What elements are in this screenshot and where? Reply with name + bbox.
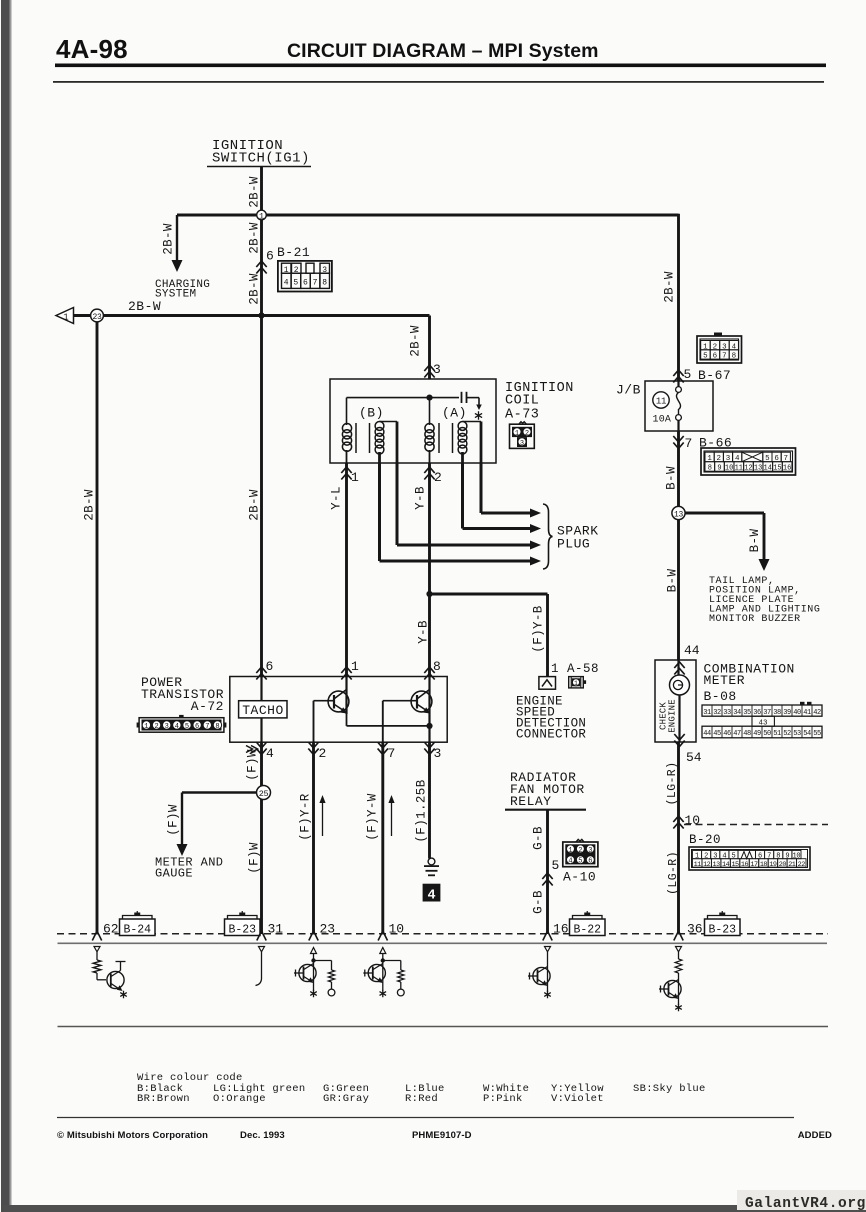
- svg-text:35: 35: [743, 709, 751, 717]
- gray section line lower: [58, 1026, 829, 1028]
- svg-text:33: 33: [723, 709, 731, 717]
- connector B-08 row 1: [702, 702, 822, 717]
- svg-text:2B-W: 2B-W: [663, 271, 677, 303]
- PT wire pin 7 riser: [382, 701, 384, 743]
- svg-text:8: 8: [732, 353, 737, 361]
- svg-text:5: 5: [684, 367, 692, 382]
- svg-text:B-W: B-W: [748, 529, 762, 553]
- svg-text:(F)Y-W: (F)Y-W: [366, 793, 380, 841]
- svg-text:9: 9: [717, 465, 721, 473]
- svg-text:(F)W: (F)W: [248, 842, 262, 874]
- charging system text: [155, 279, 210, 301]
- svg-text:16: 16: [783, 465, 791, 473]
- svg-text:23: 23: [320, 922, 336, 937]
- svg-text:METER: METER: [704, 673, 746, 688]
- svg-text:Y-L: Y-L: [330, 486, 344, 510]
- connector B-66 pin 7 chevron: [673, 436, 692, 451]
- svg-text:21: 21: [788, 861, 796, 869]
- footer rule: [57, 1117, 794, 1119]
- svg-text:13: 13: [713, 861, 721, 869]
- ground symbol 31 (open end): [256, 947, 265, 986]
- svg-text:B-21: B-21: [277, 245, 310, 260]
- connector icon B-22: [570, 911, 606, 936]
- label (F)Y-R: [299, 793, 313, 841]
- wire end fork 16: [543, 931, 552, 941]
- coil B primary lead: [346, 398, 348, 425]
- svg-text:2B-W: 2B-W: [409, 325, 423, 357]
- label (LG-R) below B-20: [667, 851, 680, 895]
- svg-text:12: 12: [703, 861, 711, 869]
- header title CIRCUIT DIAGRAM - MPI System: [287, 40, 599, 62]
- svg-text:Dec. 1993: Dec. 1993: [240, 1130, 285, 1141]
- svg-text:B-08: B-08: [704, 689, 737, 704]
- label (F)Y-B: [532, 605, 546, 653]
- connector icon A-73: [510, 422, 535, 449]
- transistor Q1: [314, 690, 349, 714]
- PT pin 4 side arrow: [246, 746, 258, 753]
- power transistor text: [141, 675, 224, 714]
- svg-text:2B-W: 2B-W: [248, 273, 262, 305]
- svg-text:4: 4: [175, 723, 179, 731]
- PT wire pin 2 riser: [313, 701, 315, 743]
- svg-text:51: 51: [773, 730, 781, 738]
- svg-text:10: 10: [725, 465, 733, 473]
- check engine lamp: [670, 660, 690, 742]
- PT wire pin 8 drop: [428, 677, 430, 743]
- wire Y-B branch drop: [546, 594, 549, 677]
- svg-text:53: 53: [793, 730, 801, 738]
- wire J/B to B-66: [677, 431, 680, 510]
- svg-text:Y-B: Y-B: [417, 620, 431, 644]
- header thin rule: [53, 81, 824, 83]
- wire top bus: [177, 214, 679, 217]
- svg-text:11: 11: [656, 397, 666, 407]
- svg-text:10: 10: [685, 813, 701, 828]
- svg-text:5: 5: [731, 853, 735, 861]
- spark plug brace: [543, 504, 553, 569]
- svg-text:1: 1: [259, 211, 264, 221]
- wire coil feed drop: [428, 316, 431, 380]
- connector B-20 box: [689, 847, 810, 870]
- svg-text:SWITCH(IG1): SWITCH(IG1): [212, 151, 310, 167]
- svg-text:1: 1: [351, 470, 359, 485]
- watermark GalantVR4.org: [745, 1196, 866, 1212]
- wire end fork B-24: [92, 931, 101, 941]
- svg-text:44: 44: [684, 643, 700, 658]
- svg-text:B-W: B-W: [665, 466, 679, 490]
- svg-text:2B-W: 2B-W: [248, 222, 262, 254]
- svg-text:11: 11: [735, 465, 743, 473]
- PT wire Q1 emitter to junction: [347, 713, 430, 726]
- label (F)Y-W: [366, 793, 380, 841]
- node 1 circle: [257, 210, 267, 221]
- spark plug text: [557, 524, 599, 552]
- wire ignition switch drop: [260, 167, 263, 216]
- footer copyright: [57, 1130, 285, 1141]
- fuse symbol: [676, 381, 682, 431]
- svg-text:1 A-58: 1 A-58: [551, 662, 599, 676]
- svg-text:37: 37: [763, 709, 771, 717]
- wire end fork 31: [257, 931, 266, 941]
- fuse 10A label: [653, 415, 672, 426]
- label 62: [103, 922, 119, 937]
- svg-text:GAUGE: GAUGE: [155, 867, 193, 881]
- svg-text:41: 41: [803, 709, 811, 717]
- svg-text:MONITOR BUZZER: MONITOR BUZZER: [709, 614, 801, 625]
- connector B-66 label: [699, 436, 732, 451]
- ground symbol 62 (resistor + transistor): [93, 947, 127, 999]
- svg-text:40: 40: [793, 709, 801, 717]
- label B-W above meter: [666, 569, 680, 593]
- svg-text:39: 39: [783, 709, 791, 717]
- svg-text:5: 5: [293, 278, 298, 287]
- svg-text:(F)1.25B: (F)1.25B: [415, 779, 429, 842]
- coil B secondary top lead: [380, 422, 398, 464]
- svg-text:5: 5: [552, 858, 560, 873]
- wire center to power transistor: [260, 316, 263, 677]
- junction dot feed/center: [258, 312, 264, 318]
- label Y-B: [414, 486, 428, 510]
- svg-text:16: 16: [741, 861, 749, 869]
- svg-text:B-W: B-W: [666, 569, 680, 593]
- svg-text:B-24: B-24: [123, 923, 151, 936]
- svg-text:1: 1: [351, 659, 359, 674]
- ignition coil text: [505, 381, 574, 423]
- svg-text:3: 3: [713, 853, 717, 861]
- svg-text:4: 4: [266, 746, 274, 761]
- circle node 13: [672, 506, 685, 519]
- svg-text:CIRCUIT DIAGRAM – MPI System: CIRCUIT DIAGRAM – MPI System: [287, 40, 599, 62]
- svg-text:(B): (B): [359, 406, 384, 421]
- wire Y-B branch horizontal: [430, 593, 548, 596]
- label J/B: [616, 383, 641, 398]
- wire end fork 36: [674, 931, 683, 941]
- svg-text:8: 8: [322, 278, 327, 287]
- wire meter to B-20: [677, 742, 680, 934]
- svg-text:46: 46: [723, 730, 731, 738]
- left scan gutter bar: [1, 0, 12, 1212]
- connector icon A-58: [569, 677, 586, 688]
- svg-text:54: 54: [803, 730, 811, 738]
- PT junction dot: [426, 723, 432, 729]
- radiator relay underline: [505, 809, 586, 811]
- label (LG-R) above B-20: [666, 762, 679, 806]
- connector B-08 cell 43: [752, 716, 774, 727]
- connector B-67 pin 5 chevron: [673, 367, 691, 383]
- svg-text:8: 8: [215, 723, 219, 731]
- svg-text:A-10: A-10: [563, 870, 596, 885]
- meter and gauge text: [155, 856, 223, 881]
- svg-text:42: 42: [813, 709, 821, 717]
- wire relay to A-10: [546, 810, 549, 934]
- svg-text:BR:Brown: BR:Brown: [137, 1093, 190, 1105]
- header page number 4A-98: [56, 34, 128, 64]
- coil A secondary bottom lead: [461, 452, 464, 463]
- ground symbol 36 (resistor + transistor): [659, 947, 682, 1012]
- wire pin 3 to ground: [428, 742, 431, 858]
- svg-text:(F)Y-B: (F)Y-B: [532, 605, 546, 653]
- svg-text:2: 2: [434, 470, 442, 485]
- label 2B-W above B-21: [248, 222, 262, 254]
- svg-text:2: 2: [578, 847, 582, 855]
- meter bottom chevron: [674, 734, 684, 747]
- ground symbol 16 (transistor): [528, 947, 551, 999]
- coil internal junction dot: [426, 395, 432, 401]
- label 2B-W switch drop: [248, 176, 262, 208]
- wire pin4 to circle 25: [260, 742, 263, 786]
- label (F)W above 25: [246, 749, 260, 781]
- label (B): [359, 406, 384, 421]
- label (A): [442, 406, 467, 421]
- svg-text:COIL: COIL: [505, 394, 539, 409]
- wire Y-L coil to PT: [345, 463, 348, 677]
- transistor Q2: [383, 690, 432, 714]
- connector icon B-23 right: [705, 911, 741, 936]
- spark plug lead 3: [397, 463, 541, 550]
- svg-text:PLUG: PLUG: [557, 537, 590, 552]
- svg-text:4: 4: [722, 853, 726, 861]
- label 2B-W below B-21: [248, 273, 262, 305]
- connector B-67 box: [697, 333, 742, 364]
- capacitor C: [462, 392, 482, 410]
- connector icon B-23 left: [225, 911, 261, 936]
- coil B secondary bottom lead: [378, 452, 381, 463]
- connector A-10 icon: [563, 839, 598, 866]
- meter top chevron: [674, 662, 684, 675]
- svg-text:3: 3: [588, 847, 592, 855]
- ground symbol 23 (transistor + resistor to sensor): [294, 948, 335, 998]
- svg-text:G-B: G-B: [532, 890, 546, 914]
- svg-text:B-23: B-23: [228, 923, 256, 936]
- svg-text:O:Orange: O:Orange: [213, 1093, 266, 1105]
- svg-text:5: 5: [703, 353, 708, 361]
- label 31: [268, 922, 284, 937]
- wire B-66 to combination meter: [677, 507, 680, 661]
- svg-text:13: 13: [674, 511, 684, 520]
- svg-text:2B-W: 2B-W: [248, 176, 262, 208]
- svg-text:36: 36: [753, 709, 761, 717]
- label 36: [687, 922, 703, 937]
- svg-text:2B-W: 2B-W: [162, 223, 176, 255]
- connector B-21 box: [278, 261, 332, 292]
- wire center drop node1 to junction: [260, 215, 263, 316]
- svg-text:49: 49: [753, 730, 761, 738]
- svg-text:36: 36: [687, 922, 703, 937]
- label Y-B lower: [417, 620, 431, 644]
- svg-text:B-20: B-20: [689, 833, 721, 847]
- PT pin 7 chevron: [378, 742, 396, 761]
- svg-text:7: 7: [685, 436, 693, 451]
- svg-text:8: 8: [708, 465, 712, 473]
- svg-text:7: 7: [313, 278, 318, 287]
- svg-text:3: 3: [165, 723, 169, 731]
- spark plug lead 1: [481, 463, 541, 518]
- wire right bus drop: [677, 214, 680, 381]
- coil A secondary top lead: [463, 422, 482, 464]
- svg-text:44: 44: [703, 730, 711, 738]
- svg-text:V:Violet: V:Violet: [551, 1093, 604, 1105]
- coil A primary bottom lead: [429, 450, 431, 463]
- tail lamp branch wire: [685, 513, 770, 571]
- svg-text:10: 10: [389, 922, 405, 937]
- svg-text:15: 15: [773, 465, 781, 473]
- svg-text:P:Pink: P:Pink: [483, 1093, 523, 1105]
- svg-text:5: 5: [578, 858, 582, 866]
- wire end fork 10: [378, 931, 387, 941]
- svg-text:48: 48: [743, 730, 751, 738]
- coil B secondary winding: [370, 422, 384, 454]
- PT pin 3 chevron: [424, 742, 441, 761]
- svg-text:G-B: G-B: [532, 826, 546, 850]
- footer document number: [412, 1130, 472, 1141]
- svg-text:2B-W: 2B-W: [128, 299, 161, 314]
- combination meter text: [704, 662, 795, 705]
- svg-text:11: 11: [694, 861, 702, 869]
- label 10: [389, 922, 405, 937]
- label Y-L: [330, 486, 344, 510]
- svg-text:6: 6: [266, 249, 274, 264]
- svg-text:45: 45: [713, 730, 721, 738]
- svg-text:34: 34: [733, 709, 741, 717]
- svg-text:14: 14: [722, 861, 730, 869]
- svg-text:J/B: J/B: [616, 383, 641, 398]
- label B-W below B-66: [665, 466, 679, 490]
- label G-B below A-10: [532, 890, 546, 914]
- tacho box: [239, 701, 287, 718]
- label 2B-W charging: [162, 223, 176, 255]
- svg-text:R:Red: R:Red: [405, 1093, 438, 1105]
- svg-text:2: 2: [154, 723, 158, 731]
- ground symbol pin 3: [424, 858, 439, 875]
- label 1 A-58: [551, 662, 599, 676]
- svg-text:52: 52: [783, 730, 791, 738]
- svg-text:A-72: A-72: [191, 699, 224, 714]
- svg-text:PHME9107-D: PHME9107-D: [412, 1130, 472, 1141]
- wire left branch down: [96, 322, 99, 935]
- coil A primary winding: [425, 423, 439, 453]
- svg-text:25: 25: [259, 789, 269, 799]
- wire Y-B coil to PT: [428, 463, 431, 677]
- svg-text:4A-98: 4A-98: [56, 34, 128, 64]
- coil B primary winding: [342, 423, 356, 453]
- ignition switch label: [207, 138, 311, 167]
- header thick rule: [55, 64, 826, 68]
- svg-text:3: 3: [433, 362, 441, 377]
- footer added: [798, 1130, 832, 1141]
- spark plug lead 4: [380, 463, 542, 566]
- label 2B-W left wire: [83, 489, 97, 521]
- svg-text:RELAY: RELAY: [510, 794, 552, 809]
- circle node 25: [257, 786, 271, 800]
- svg-text:ENGINE: ENGINE: [668, 699, 678, 733]
- dashed separator line: [57, 933, 828, 935]
- coil A primary lead: [429, 398, 431, 425]
- svg-text:(F)Y-R: (F)Y-R: [299, 793, 313, 841]
- connector icon B-24: [120, 911, 156, 936]
- direction arrow pin7: [388, 795, 394, 836]
- svg-text:2: 2: [525, 430, 529, 438]
- coil B primary bottom lead: [346, 450, 348, 463]
- connector icon A-72: [137, 715, 227, 732]
- svg-text:B-23: B-23: [708, 923, 736, 936]
- circle node 23: [91, 309, 104, 322]
- fuse circuit 11 circle: [653, 392, 669, 408]
- connector B-66 box: [701, 448, 796, 475]
- PT wire pin 1 drop: [345, 677, 347, 715]
- power transistor box A-72: [230, 677, 447, 743]
- label (F)W meter branch: [167, 804, 181, 836]
- coil pin 2 chevron: [424, 467, 442, 485]
- svg-text:CONNECTOR: CONNECTOR: [516, 728, 586, 742]
- connector A-10 label: [563, 870, 596, 885]
- svg-text:Y-B: Y-B: [414, 486, 428, 510]
- label 2B-W center wire: [248, 489, 262, 521]
- svg-text:47: 47: [733, 730, 741, 738]
- wire colour code legend: [137, 1072, 706, 1105]
- svg-text:8: 8: [776, 853, 780, 861]
- gray section line upper: [58, 942, 828, 944]
- wire 25 to bottom: [260, 793, 263, 935]
- svg-text:55: 55: [813, 730, 821, 738]
- svg-text:15: 15: [731, 861, 739, 869]
- svg-text:ADDED: ADDED: [798, 1130, 832, 1141]
- svg-text:50: 50: [763, 730, 771, 738]
- svg-text:6: 6: [195, 723, 199, 731]
- svg-text:62: 62: [103, 922, 119, 937]
- label B-W tail branch: [748, 529, 762, 553]
- svg-text:6: 6: [588, 858, 592, 866]
- svg-text:1: 1: [63, 313, 68, 323]
- svg-text:22: 22: [798, 861, 806, 869]
- meter pin 54 label: [686, 750, 702, 765]
- wire pin 7 down: [381, 742, 384, 934]
- svg-text:54: 54: [686, 750, 702, 765]
- svg-text:(F)W: (F)W: [167, 804, 181, 836]
- PT pin 8 chevron: [424, 659, 441, 680]
- svg-text:A-73: A-73: [505, 408, 539, 423]
- check engine text: [659, 699, 678, 733]
- svg-text:B-22: B-22: [573, 923, 601, 936]
- ground ref 4 black box: [423, 884, 441, 904]
- svg-text:14: 14: [764, 465, 772, 473]
- coil pin 1 chevron: [341, 467, 359, 485]
- label G-B above A-10: [532, 826, 546, 850]
- svg-text:31: 31: [703, 709, 711, 717]
- PT pin 4 chevron: [256, 742, 274, 761]
- svg-text:16: 16: [553, 922, 569, 937]
- svg-text:1: 1: [568, 847, 572, 855]
- connector B-67 label: [698, 368, 731, 383]
- svg-text:8: 8: [433, 659, 441, 674]
- meter pin 44 label: [684, 643, 700, 658]
- PT pin 1 chevron: [341, 659, 359, 680]
- bottom scan gutter bar: [3, 1205, 866, 1212]
- svg-text:20: 20: [779, 861, 787, 869]
- connector B-20 pin 10 chevron: [673, 813, 700, 829]
- wire feed bus: [74, 314, 430, 317]
- dashed line at B-20: [684, 824, 828, 826]
- svg-text:3: 3: [434, 746, 442, 761]
- radiator fan motor relay text: [510, 770, 585, 809]
- svg-text:4: 4: [427, 888, 435, 903]
- svg-text:7: 7: [205, 723, 209, 731]
- svg-text:32: 32: [713, 709, 721, 717]
- junction dot Y-B branch: [426, 591, 432, 597]
- svg-text:6: 6: [266, 659, 274, 674]
- svg-text:© Mitsubishi Motors Corporatio: © Mitsubishi Motors Corporation: [57, 1130, 208, 1141]
- svg-text:12: 12: [744, 465, 752, 473]
- svg-text:13: 13: [754, 465, 762, 473]
